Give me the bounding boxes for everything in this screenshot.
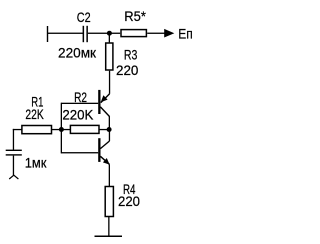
wire Q2 base (bus bottom) bbox=[61, 152, 98, 153]
wire Q2 emitter to R4 bbox=[109, 164, 110, 186]
svg-text:220мк: 220мк bbox=[58, 45, 97, 61]
resistor R2 bbox=[70, 125, 99, 133]
wire C2 to node A bbox=[88, 33, 110, 34]
wire C1 to ground bbox=[13, 156, 14, 176]
input terminal bbox=[47, 26, 48, 42]
wire R4 to ground bbox=[108, 217, 109, 237]
resistor R3 bbox=[106, 43, 113, 70]
svg-text:R3: R3 bbox=[124, 47, 138, 63]
node B (junction dot) bbox=[107, 127, 112, 132]
wire Q1 collector to node B bbox=[109, 116, 110, 129]
resistor R1 bbox=[22, 126, 52, 134]
wire node C to R2 bbox=[61, 129, 70, 130]
transistor Q1 (PNP) bbox=[98, 90, 109, 117]
ground (bar) bbox=[95, 236, 123, 238]
svg-text:Еп: Еп bbox=[178, 26, 193, 42]
svg-text:C2: C2 bbox=[77, 9, 91, 25]
transistor Q2 (NPN) bbox=[98, 138, 109, 164]
ground (arrow) bbox=[9, 175, 18, 179]
wire R1 to node C bbox=[52, 129, 62, 130]
svg-text:220: 220 bbox=[118, 193, 140, 209]
wire R5 to supply arrow bbox=[147, 33, 166, 34]
wire R3 to Q1 emitter bbox=[109, 71, 110, 94]
node A (junction dot) bbox=[107, 31, 112, 36]
svg-text:220: 220 bbox=[116, 62, 139, 78]
wire R1 input corner bbox=[13, 129, 23, 150]
svg-text:R5*: R5* bbox=[124, 8, 146, 24]
capacitor C1 (1мк) bbox=[6, 150, 22, 156]
resistor R4 bbox=[105, 187, 113, 217]
svg-text:R2: R2 bbox=[74, 89, 87, 105]
wire node A to R3 bbox=[109, 33, 110, 42]
wire Q1 base (bus top) bbox=[61, 103, 98, 104]
svg-text:22K: 22K bbox=[25, 106, 44, 122]
wire R2 to node B bbox=[99, 129, 109, 130]
node C (junction dot) bbox=[59, 127, 64, 132]
capacitor C2 bbox=[83, 26, 88, 42]
svg-text:1мк: 1мк bbox=[25, 155, 48, 171]
wire node A to R5 bbox=[109, 33, 120, 34]
wire input to C2 bbox=[48, 33, 84, 34]
wire base bus vertical bbox=[61, 103, 62, 154]
supply arrow bbox=[164, 29, 174, 38]
wire node B to Q2 collector bbox=[109, 130, 110, 142]
svg-text:220K: 220K bbox=[62, 106, 94, 122]
resistor R5 bbox=[121, 30, 146, 37]
